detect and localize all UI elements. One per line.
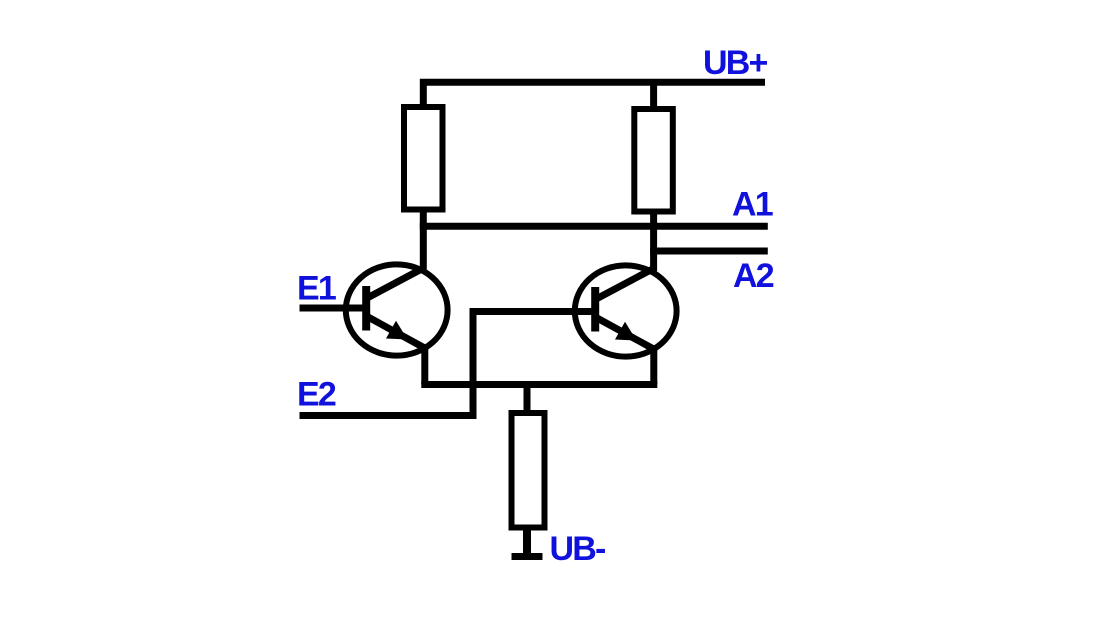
transistor T2 (575, 265, 677, 356)
wire E1 base lead (300, 305, 367, 312)
svg-text:E2: E2 (297, 376, 336, 414)
wire emitter rail (421, 381, 657, 388)
wire T2 emitter down (650, 348, 657, 385)
wire T2 base lead (473, 308, 595, 315)
resistor R3 (512, 413, 545, 528)
wire R2 top stub (650, 79, 657, 109)
wire E2 (300, 412, 477, 419)
svg-text:UB-: UB- (550, 530, 606, 568)
wire T1 emitter down (421, 347, 428, 385)
svg-text:UB+: UB+ (703, 44, 768, 82)
resistor R1 (404, 107, 443, 210)
svg-text:E1: E1 (297, 270, 336, 308)
svg-text:A2: A2 (733, 257, 774, 295)
wire R3 bottom stub (523, 528, 531, 554)
wire E2 riser (470, 308, 477, 419)
wire R1 top stub (420, 79, 427, 107)
wire R2 bottom to T2 collector (650, 212, 657, 272)
wire A1 (420, 223, 768, 230)
wire UB+ top rail (420, 79, 765, 86)
wire R1 bottom to T1 collector (420, 210, 427, 271)
transistor T1 (346, 264, 448, 355)
wire A2 (650, 248, 768, 255)
wire tail stub (524, 385, 531, 414)
resistor R2 (634, 109, 673, 212)
UB- terminal bar (512, 553, 543, 560)
svg-text:A1: A1 (732, 186, 773, 224)
